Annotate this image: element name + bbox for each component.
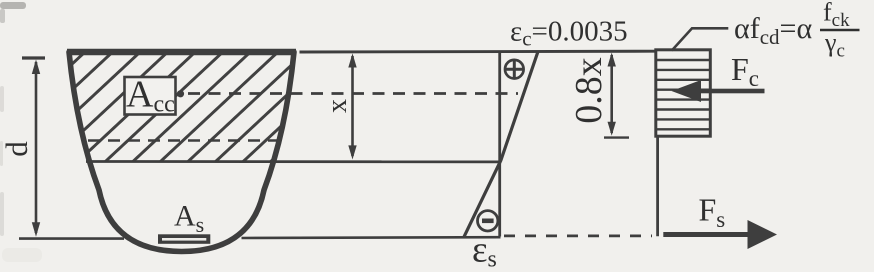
dimension d: vertical dimension line with arrowheads: [32, 60, 40, 237]
force Fc arrow: [672, 80, 765, 102]
cross-section top edge (thick): [67, 49, 296, 55]
bottom reference line (left of section): [19, 237, 124, 240]
leader line to stress label: [672, 28, 729, 50]
dimension x: vertical line with arrowheads: [348, 53, 356, 159]
minus symbol (tension): [478, 211, 498, 231]
dashed line at 0.8x level inside section: [88, 139, 278, 142]
stress block: [656, 50, 711, 136]
dimension d: top reference tick: [22, 56, 45, 59]
vertical line below stress block: [656, 136, 659, 236]
dimension 0.8x: vertical line with arrowheads: [604, 53, 629, 138]
stress label afcd = a fck/gc: [734, 0, 860, 62]
hatched compression zone Acc fill: [60, 44, 305, 162]
bottom reference dashed line (to Fs): [504, 234, 652, 237]
Acc label box: [125, 74, 176, 118]
centroid dashed line: [188, 92, 518, 95]
force Fs arrow: [663, 220, 777, 249]
reinforcement bar As: [158, 234, 210, 244]
top reference line (section to stress block): [300, 50, 656, 54]
concrete cross-section outline: [69, 52, 294, 252]
scan smudges left edge: [0, 86, 42, 262]
neutral axis solid line (hatch boundary, continues to strain diagram): [86, 160, 500, 163]
strain profile line: [464, 52, 538, 237]
strain diagram vertical axis: [498, 51, 501, 237]
centroid dot: [177, 90, 184, 97]
bottom reference line (section to strain diagram): [242, 236, 501, 239]
plus symbol (compression): [505, 60, 524, 79]
scan smudge top-left edge: [0, 2, 26, 23]
